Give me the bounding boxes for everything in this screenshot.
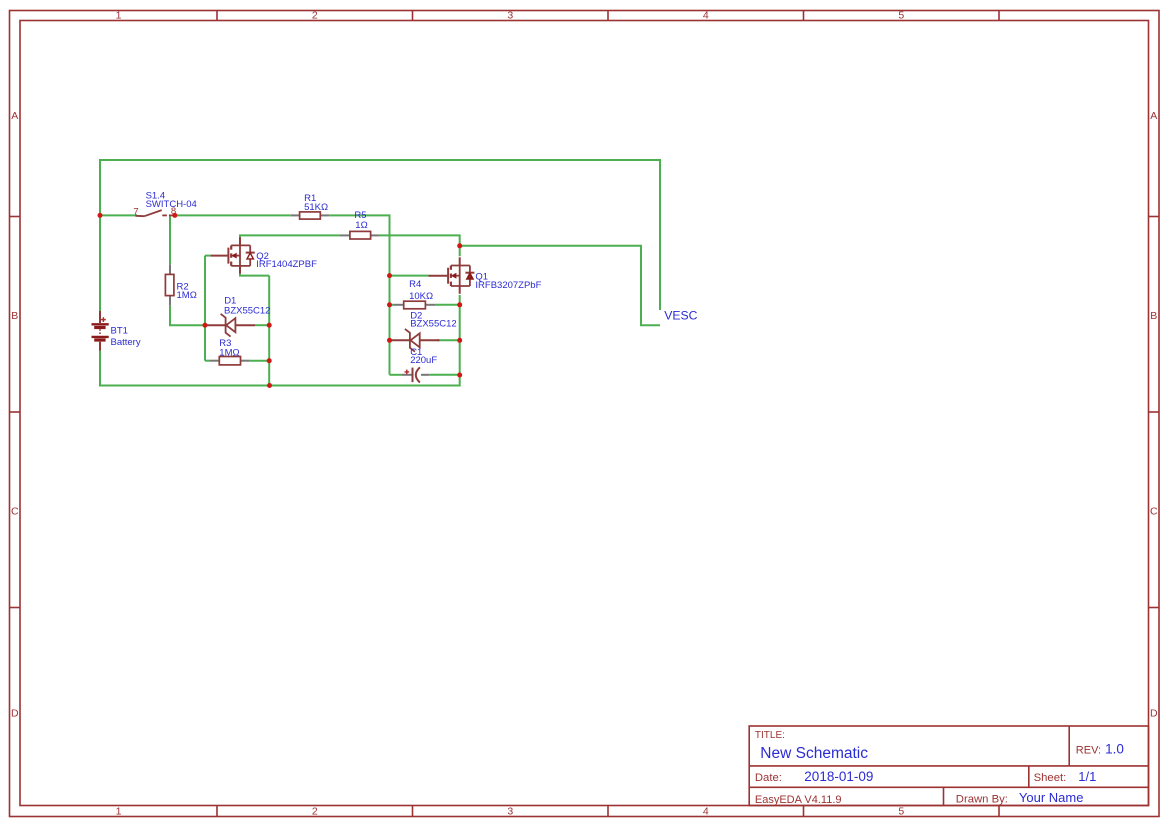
svg-text:Battery: Battery <box>111 337 141 348</box>
svg-text:1Ω: 1Ω <box>355 220 367 231</box>
svg-text:5: 5 <box>898 10 904 22</box>
svg-text:1/1: 1/1 <box>1078 769 1096 784</box>
svg-text:Date:: Date: <box>755 772 782 784</box>
svg-text:1MΩ: 1MΩ <box>177 290 197 301</box>
svg-text:3: 3 <box>507 10 513 22</box>
svg-text:C: C <box>11 506 19 518</box>
svg-text:1MΩ: 1MΩ <box>219 347 239 358</box>
svg-text:7: 7 <box>133 207 138 218</box>
svg-text:4: 4 <box>703 806 709 818</box>
svg-text:Drawn By:: Drawn By: <box>956 793 1008 805</box>
svg-text:IRF1404ZPBF: IRF1404ZPBF <box>256 259 317 270</box>
svg-text:1.0: 1.0 <box>1105 742 1124 757</box>
svg-text:D: D <box>1150 708 1158 720</box>
svg-text:TITLE:: TITLE: <box>755 730 785 741</box>
svg-text:1: 1 <box>116 806 122 818</box>
svg-text:Sheet:: Sheet: <box>1034 772 1067 784</box>
svg-text:R4: R4 <box>409 279 421 290</box>
svg-text:REV:: REV: <box>1076 745 1101 757</box>
svg-text:3: 3 <box>507 806 513 818</box>
svg-text:10KΩ: 10KΩ <box>409 291 433 302</box>
svg-text:Your Name: Your Name <box>1019 790 1084 805</box>
svg-text:4: 4 <box>703 10 709 22</box>
svg-text:B: B <box>1150 310 1157 322</box>
svg-text:5: 5 <box>898 806 904 818</box>
svg-text:51KΩ: 51KΩ <box>304 202 328 213</box>
svg-text:2: 2 <box>312 10 318 22</box>
svg-text:BT1: BT1 <box>111 326 128 337</box>
svg-text:2: 2 <box>312 806 318 818</box>
svg-text:BZX55C12: BZX55C12 <box>224 305 270 316</box>
svg-text:A: A <box>11 110 18 122</box>
svg-text:BZX55C12: BZX55C12 <box>410 318 456 329</box>
svg-text:New Schematic: New Schematic <box>760 745 868 762</box>
svg-text:B: B <box>11 310 18 322</box>
svg-text:2018-01-09: 2018-01-09 <box>804 769 873 784</box>
svg-text:A: A <box>1150 110 1157 122</box>
svg-text:1: 1 <box>116 10 122 22</box>
svg-text:D: D <box>11 708 19 720</box>
svg-text:220uF: 220uF <box>410 355 437 366</box>
svg-text:C: C <box>1150 506 1158 518</box>
svg-text:IRFB3207ZPbF: IRFB3207ZPbF <box>475 280 541 291</box>
svg-text:VESC: VESC <box>664 309 697 323</box>
svg-text:SWITCH-04: SWITCH-04 <box>146 199 197 210</box>
svg-text:EasyEDA V4.11.9: EasyEDA V4.11.9 <box>755 794 842 806</box>
